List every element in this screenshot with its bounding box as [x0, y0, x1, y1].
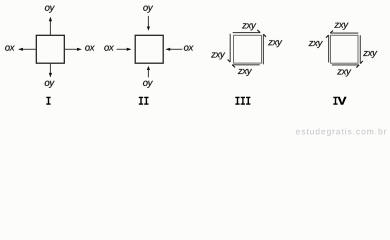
label zxy top (III): [242, 23, 256, 30]
arrow sigma-x left outward (I): [18, 48, 36, 51]
square element I: [36, 35, 64, 63]
arrow sigma-y bottom inward (II): [147, 66, 150, 78]
shear arrow left downward (III): [228, 34, 231, 62]
label oy top (II): [143, 6, 153, 13]
shear arrow top leftward (IV): [330, 31, 358, 34]
arrow sigma-y top inward (II): [147, 16, 150, 31]
label zxy bottom (IV): [337, 70, 351, 77]
arrow sigma-y bottom outward (I): [49, 63, 52, 77]
label ox right (I): [85, 46, 95, 51]
label ox left (II): [104, 46, 114, 51]
label zxy bottom (III): [238, 69, 252, 76]
shear arrow bottom rightward (IV): [332, 65, 359, 68]
shear arrow left upward (IV): [326, 35, 329, 62]
label oy bottom (I): [45, 81, 55, 88]
numeral label I: [46, 97, 50, 105]
numeral label II: [139, 97, 149, 105]
label oy top (I): [45, 6, 55, 13]
square element II: [135, 35, 163, 63]
shear arrow top rightward (III): [233, 30, 261, 33]
label zxy right (IV): [363, 51, 377, 58]
label zxy top (IV): [334, 23, 348, 30]
numeral label IV: [333, 97, 346, 105]
shear arrow right downward (IV): [360, 35, 363, 63]
square element IV: [331, 35, 359, 63]
label oy bottom (II): [143, 81, 153, 88]
watermark estudegratis.com.br: [296, 128, 386, 136]
shear arrow right upward (III): [263, 34, 266, 64]
arrow sigma-y top outward (I): [49, 17, 52, 36]
arrow sigma-x left inward (II): [117, 48, 132, 51]
label ox left (I): [5, 46, 15, 51]
arrow sigma-x right inward (II): [165, 48, 182, 51]
numeral label III: [235, 97, 250, 105]
label zxy left (IV): [309, 41, 323, 48]
arrow sigma-x right outward (I): [64, 48, 82, 51]
shear arrow bottom leftward (III): [232, 65, 259, 68]
label ox right (II): [184, 46, 194, 51]
label zxy left (III): [211, 53, 225, 60]
label zxy right (III): [268, 40, 282, 47]
square element III: [234, 35, 262, 63]
